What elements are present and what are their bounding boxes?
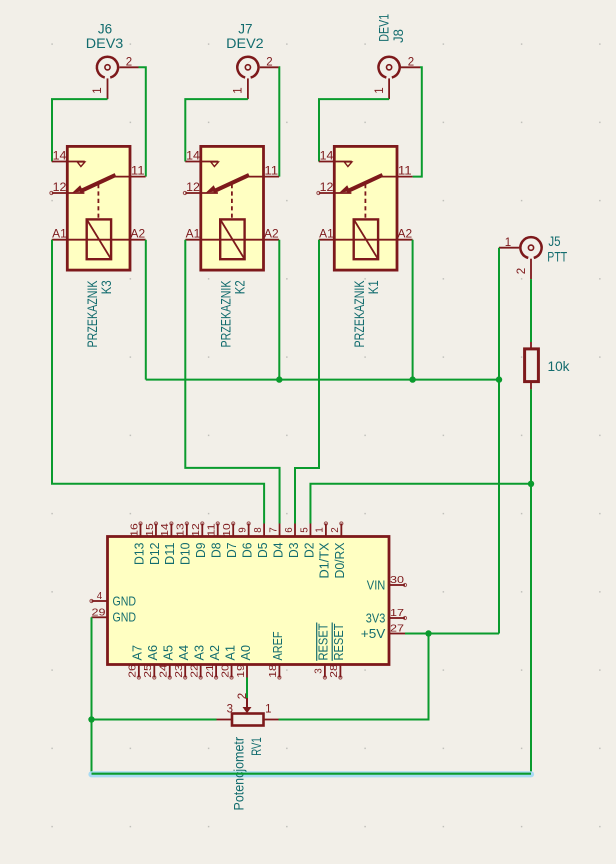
svg-text:A2: A2 bbox=[398, 229, 413, 241]
svg-text:D4: D4 bbox=[270, 543, 285, 559]
wire K3.A1 to MCU D5 bbox=[52, 240, 264, 524]
J5 pin 2 bbox=[516, 259, 531, 279]
MCU pin 11 (D8) top bbox=[207, 522, 224, 558]
svg-text:5: 5 bbox=[299, 527, 310, 533]
RV1 pin 2 (wiper arrow) bbox=[237, 693, 252, 714]
svg-text:1: 1 bbox=[92, 87, 104, 93]
MCU pin 8 (D5) top bbox=[253, 524, 270, 559]
junction rail/J5 vertical bbox=[496, 376, 502, 382]
svg-text:A1: A1 bbox=[52, 229, 67, 241]
svg-text:D6: D6 bbox=[239, 543, 254, 559]
MCU pin 4 (GND) left bbox=[90, 591, 136, 608]
junction K2.A2/rail bbox=[276, 376, 282, 382]
svg-text:D10: D10 bbox=[178, 543, 193, 566]
svg-text:23: 23 bbox=[174, 664, 185, 678]
svg-text:D11: D11 bbox=[162, 543, 177, 566]
svg-text:30: 30 bbox=[390, 575, 405, 586]
MCU pin 30 (VIN) right bbox=[367, 575, 407, 592]
MCU pin 15 (D12) top bbox=[145, 522, 162, 565]
svg-text:D3: D3 bbox=[286, 543, 301, 559]
svg-text:28: 28 bbox=[329, 664, 340, 678]
svg-text:J5: J5 bbox=[548, 233, 560, 249]
MCU U1 (Arduino Nano) body bbox=[108, 537, 390, 665]
wire K2.A2 to +5V rail bbox=[278, 240, 280, 380]
svg-text:RESET: RESET bbox=[316, 623, 331, 660]
svg-text:6: 6 bbox=[284, 527, 295, 533]
svg-text:J8: J8 bbox=[390, 29, 406, 43]
svg-text:14: 14 bbox=[160, 523, 171, 537]
svg-text:A4: A4 bbox=[176, 645, 191, 661]
svg-text:GND: GND bbox=[113, 610, 137, 625]
svg-text:D5: D5 bbox=[255, 543, 270, 559]
svg-text:A2: A2 bbox=[131, 229, 146, 241]
svg-text:VIN: VIN bbox=[367, 577, 386, 592]
MCU pin 13 (D10) top bbox=[176, 522, 193, 565]
svg-text:K2: K2 bbox=[232, 280, 248, 294]
svg-text:3V3: 3V3 bbox=[366, 610, 386, 625]
wire MCU +5V pin to J5 vertical bbox=[405, 633, 499, 635]
svg-text:1: 1 bbox=[233, 87, 245, 93]
svg-text:16: 16 bbox=[129, 523, 140, 537]
svg-text:2: 2 bbox=[126, 56, 132, 68]
MCU pin 14 (D11) top bbox=[160, 522, 177, 565]
MCU pin 27 (+5V) right bbox=[361, 624, 405, 641]
MCU pin 24 (A5) bottom bbox=[159, 645, 176, 679]
MCU pin 17 (3V3) right bbox=[366, 608, 407, 625]
svg-text:11: 11 bbox=[264, 166, 278, 178]
svg-text:8: 8 bbox=[253, 527, 264, 533]
svg-text:DEV2: DEV2 bbox=[226, 35, 264, 51]
wire K3.A2 to +5V rail bbox=[145, 240, 147, 380]
svg-text:10k: 10k bbox=[548, 358, 571, 374]
svg-text:A7: A7 bbox=[130, 645, 145, 661]
highlighted wire (selected net) bbox=[92, 773, 532, 775]
J8 pin 2 bbox=[401, 56, 420, 68]
svg-text:A2: A2 bbox=[207, 645, 222, 661]
svg-text:14: 14 bbox=[53, 151, 67, 163]
svg-text:13: 13 bbox=[176, 523, 187, 537]
svg-text:RV1: RV1 bbox=[248, 737, 264, 756]
MCU pin 7 (D4) top bbox=[268, 524, 285, 559]
svg-text:2: 2 bbox=[516, 268, 528, 274]
K1 pin 12 bbox=[317, 182, 352, 194]
K2 pin A2 bbox=[232, 229, 279, 241]
svg-text:DEV1: DEV1 bbox=[375, 14, 391, 42]
svg-text:11: 11 bbox=[398, 166, 412, 178]
wire J8 pin1 to K1 pin14 bbox=[319, 99, 389, 161]
svg-text:DEV3: DEV3 bbox=[86, 35, 124, 51]
MCU pin 26 (A7) bottom bbox=[128, 645, 145, 679]
svg-text:14: 14 bbox=[320, 151, 334, 163]
junction resistor/D2 wire bbox=[528, 481, 534, 487]
svg-text:7: 7 bbox=[268, 527, 279, 532]
K1 pin A1 bbox=[319, 229, 366, 241]
svg-text:2: 2 bbox=[237, 693, 249, 699]
wire MCU A0 to potentiometer wiper bbox=[246, 678, 248, 699]
K1 pin 11 bbox=[382, 166, 413, 178]
wire K1.A2 to +5V rail bbox=[412, 240, 414, 380]
svg-text:GND: GND bbox=[113, 593, 137, 608]
K3 pin A2 bbox=[98, 229, 145, 241]
MCU pin 20 (A1) bottom bbox=[220, 645, 237, 679]
MCU pin 19 (A0) bottom bbox=[236, 645, 253, 678]
highlighted wire halo (selected net) bbox=[92, 771, 532, 777]
potentiometer RV1 bbox=[232, 714, 264, 726]
MCU pin 28 (RESET) bbox=[329, 623, 346, 680]
MCU pin 6 (D3) top bbox=[284, 524, 301, 559]
svg-text:D7: D7 bbox=[224, 543, 239, 559]
resistor 10k bbox=[525, 342, 539, 389]
svg-text:3: 3 bbox=[227, 704, 233, 716]
MCU pin 16 (D13) top bbox=[129, 522, 146, 565]
svg-text:24: 24 bbox=[159, 664, 170, 678]
MCU pin 29 (GND) left bbox=[92, 607, 137, 624]
svg-text:A5: A5 bbox=[161, 645, 176, 661]
svg-text:A3: A3 bbox=[191, 645, 206, 661]
svg-text:12: 12 bbox=[53, 182, 67, 194]
wire J5 pin1 down to +5V pin bbox=[498, 248, 500, 634]
svg-text:14: 14 bbox=[186, 151, 200, 163]
svg-text:+5V: +5V bbox=[361, 626, 386, 641]
svg-text:18: 18 bbox=[268, 664, 279, 678]
svg-text:10: 10 bbox=[222, 523, 233, 537]
svg-text:A1: A1 bbox=[319, 229, 334, 241]
junction GND/pot wire bbox=[88, 716, 94, 722]
wire J5 pin2 to resistor top bbox=[530, 279, 532, 342]
svg-text:RESET: RESET bbox=[331, 623, 346, 660]
J7 pin 2 bbox=[260, 56, 279, 68]
MCU pin 2 (D0/RX) top bbox=[330, 522, 347, 579]
connector J5 (BNC, PTT) bbox=[520, 237, 541, 258]
relay K3 bbox=[67, 146, 130, 270]
svg-text:1: 1 bbox=[315, 527, 326, 532]
connector J8 (BNC) bbox=[378, 57, 399, 78]
svg-text:1: 1 bbox=[374, 87, 386, 93]
MCU pin 10 (D7) top bbox=[222, 522, 239, 558]
svg-text:K3: K3 bbox=[98, 280, 114, 294]
svg-text:12: 12 bbox=[320, 182, 334, 194]
svg-text:A6: A6 bbox=[145, 645, 160, 661]
svg-text:D2: D2 bbox=[301, 543, 316, 559]
svg-text:4: 4 bbox=[97, 591, 103, 602]
K2 pin A1 bbox=[185, 229, 232, 241]
MCU pin 21 (A2) bottom bbox=[205, 645, 222, 679]
svg-text:19: 19 bbox=[236, 664, 247, 678]
junction +5V branch bbox=[425, 630, 431, 636]
J8 pin 1 bbox=[374, 78, 389, 99]
MCU pin 12 (D9) top bbox=[191, 522, 208, 558]
svg-text:A0: A0 bbox=[238, 645, 253, 661]
RV1 pin 1 bbox=[264, 704, 279, 720]
K3 pin 11 bbox=[115, 166, 146, 178]
wire J7 pin1 to K2 pin14 bbox=[185, 99, 248, 161]
svg-text:D12: D12 bbox=[147, 543, 162, 566]
J7 pin 1 bbox=[233, 78, 248, 99]
svg-text:22: 22 bbox=[189, 664, 200, 678]
relay K2 bbox=[201, 146, 264, 270]
wire K1.A1 to MCU D3 bbox=[295, 240, 319, 524]
wire GND to potentiometer pin 3 bbox=[92, 719, 217, 721]
svg-text:25: 25 bbox=[143, 664, 154, 678]
wire J6 pin1 to K3 pin14 bbox=[52, 99, 108, 161]
MCU pin 3 (RESET) bbox=[314, 623, 331, 680]
svg-text:PTT: PTT bbox=[547, 249, 567, 265]
wire J7 pin2 to K2 pin11 bbox=[278, 67, 280, 176]
junction K1.A2/rail bbox=[409, 376, 415, 382]
K2 pin 11 bbox=[249, 166, 280, 178]
svg-text:21: 21 bbox=[205, 664, 216, 678]
K3 pin A1 bbox=[52, 229, 99, 241]
wire +5V branch down to potentiometer pin 1 bbox=[279, 634, 429, 720]
MCU pin 23 (A4) bottom bbox=[174, 645, 191, 679]
MCU pin 18 (AREF) bbox=[268, 631, 285, 679]
svg-text:3: 3 bbox=[314, 668, 325, 674]
K2 pin 12 bbox=[183, 182, 218, 194]
K3 pin 12 bbox=[50, 182, 85, 194]
svg-text:2: 2 bbox=[408, 56, 414, 68]
MCU pin 9 (D6) top bbox=[237, 522, 254, 558]
relay K1 bbox=[334, 146, 397, 270]
svg-text:11: 11 bbox=[131, 166, 145, 178]
svg-text:12: 12 bbox=[186, 182, 200, 194]
K1 pin A2 bbox=[365, 229, 412, 241]
MCU pin 1 (D1/TX) top bbox=[315, 522, 332, 579]
svg-text:15: 15 bbox=[145, 523, 156, 537]
svg-text:AREF: AREF bbox=[270, 631, 285, 660]
svg-text:27: 27 bbox=[390, 624, 404, 635]
J5 pin 1 bbox=[499, 237, 519, 249]
svg-text:2: 2 bbox=[330, 527, 341, 532]
svg-text:A2: A2 bbox=[264, 229, 279, 241]
svg-text:K1: K1 bbox=[365, 280, 381, 294]
svg-text:D9: D9 bbox=[193, 543, 208, 559]
svg-text:9: 9 bbox=[237, 527, 248, 532]
svg-text:12: 12 bbox=[191, 523, 202, 537]
MCU pin 5 (D2) top bbox=[299, 524, 316, 559]
K1 pin 14 bbox=[319, 151, 352, 163]
connector J6 (BNC) bbox=[97, 57, 118, 78]
svg-text:D13: D13 bbox=[131, 543, 146, 566]
svg-text:17: 17 bbox=[390, 608, 404, 619]
wire J8 pin2 to K1 pin11 bbox=[413, 67, 422, 176]
wire +5V rail (relay coils common) bbox=[146, 379, 499, 381]
RV1 pin 3 bbox=[217, 704, 234, 720]
MCU pin 25 (A6) bottom bbox=[143, 645, 160, 679]
wire K2.A1 to MCU D4 bbox=[185, 240, 279, 524]
svg-text:D0/RX: D0/RX bbox=[332, 542, 347, 578]
svg-text:1: 1 bbox=[265, 704, 271, 716]
svg-text:29: 29 bbox=[92, 607, 106, 618]
wire J6 pin2 to K3 pin11 bbox=[139, 67, 146, 176]
K3 pin 14 bbox=[52, 151, 85, 163]
svg-text:2: 2 bbox=[266, 56, 272, 68]
wire MCU D2 to resistor node bbox=[310, 484, 531, 524]
K2 pin 14 bbox=[185, 151, 218, 163]
wire MCU GND pin29 down bbox=[91, 617, 93, 773]
svg-text:1: 1 bbox=[505, 237, 511, 249]
J6 pin 1 bbox=[92, 78, 107, 99]
connector J7 (BNC) bbox=[237, 57, 258, 78]
MCU pin 22 (A3) bottom bbox=[189, 645, 206, 679]
svg-text:26: 26 bbox=[128, 664, 139, 678]
svg-text:A1: A1 bbox=[222, 645, 237, 661]
svg-text:D1/TX: D1/TX bbox=[317, 542, 332, 578]
wire resistor bottom down to highlighted net bbox=[530, 389, 532, 773]
svg-text:11: 11 bbox=[207, 523, 218, 537]
svg-text:A1: A1 bbox=[186, 229, 201, 241]
J6 pin 2 bbox=[119, 56, 138, 68]
svg-text:20: 20 bbox=[220, 664, 231, 678]
svg-text:D8: D8 bbox=[209, 543, 224, 559]
